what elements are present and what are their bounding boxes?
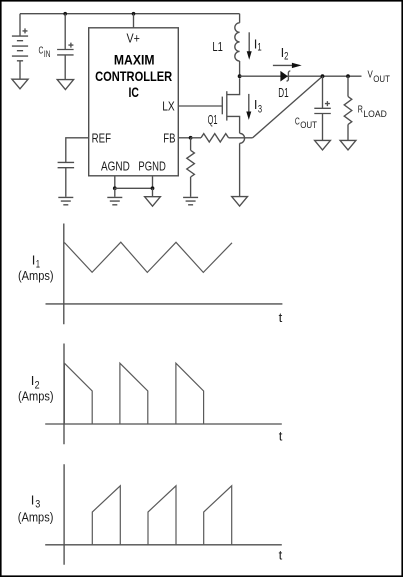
wire FB pin <box>178 137 190 139</box>
svg-text:1: 1 <box>257 42 261 54</box>
wire V+ pin <box>133 14 135 28</box>
svg-text:(Amps): (Amps) <box>18 268 54 283</box>
transistor Q1 (MOSFET) <box>178 78 239 133</box>
ground (RLOAD, triangle) <box>340 140 356 150</box>
wire switch node to VOUT <box>240 75 362 77</box>
svg-text:AGND: AGND <box>101 159 130 174</box>
node FB <box>189 136 193 140</box>
diode D1 (schottky) <box>280 71 288 82</box>
svg-text:MAXIM: MAXIM <box>114 52 155 68</box>
svg-text:C: C <box>39 44 44 56</box>
wire top rail <box>20 13 240 15</box>
svg-text:t: t <box>279 429 283 444</box>
node COUT <box>321 74 325 78</box>
svg-text:CONTROLLER: CONTROLLER <box>95 68 172 84</box>
wire PGND down <box>152 188 154 196</box>
wire PGND pin <box>152 176 154 189</box>
svg-text:FB: FB <box>163 130 175 145</box>
svg-text:V: V <box>368 69 373 81</box>
ground (Q1 source, triangle) <box>232 197 248 207</box>
svg-text:V+: V+ <box>127 30 140 45</box>
chart 1 axes <box>46 224 283 325</box>
capacitor COUT <box>314 76 331 140</box>
chart 3 waveform I3 <box>92 486 231 545</box>
svg-text:t: t <box>279 310 283 325</box>
svg-text:OUT: OUT <box>373 74 390 85</box>
svg-text:(Amps): (Amps) <box>18 509 54 524</box>
svg-text:OUT: OUT <box>300 120 317 131</box>
capacitor CIN <box>57 14 74 80</box>
svg-text:(Amps): (Amps) <box>18 389 54 404</box>
svg-text:LX: LX <box>162 99 175 114</box>
wire hop (source over FB line) <box>240 133 245 143</box>
chart 1 waveform I1 <box>64 242 232 272</box>
svg-text:R: R <box>358 103 363 115</box>
node (switch node) <box>238 74 242 78</box>
svg-text:LOAD: LOAD <box>363 109 387 120</box>
wire Q1 source down <box>239 143 241 196</box>
capacitor (REF bypass) <box>58 162 75 167</box>
resistor (FB lower divider) <box>187 138 195 197</box>
svg-text:PGND: PGND <box>138 159 165 174</box>
svg-text:2: 2 <box>284 51 288 63</box>
ground (battery) <box>12 79 28 89</box>
node AGND <box>113 186 117 190</box>
svg-text:IC: IC <box>129 84 139 100</box>
ground (CIN) <box>57 80 73 90</box>
battery B1 <box>12 14 28 79</box>
wire AGND pin <box>114 176 116 189</box>
node PGND <box>151 186 155 190</box>
wire REF pin <box>66 138 89 162</box>
ground (REF cap, earth) <box>58 197 73 204</box>
arrow I3 <box>248 94 250 112</box>
op-amp U1 MAXIM CONTROLLER IC box <box>89 28 179 176</box>
svg-text:t: t <box>279 547 283 562</box>
ground (AGND, earth) <box>107 197 122 204</box>
chart 2 waveform I2 <box>64 363 203 424</box>
resistor RLOAD <box>344 76 352 140</box>
chart 3 axes <box>45 464 282 565</box>
arrow I1 <box>248 32 250 52</box>
svg-text:D1: D1 <box>278 85 288 100</box>
node (CIN tap) <box>63 12 67 16</box>
wire AGND down <box>114 188 116 197</box>
svg-text:I: I <box>32 252 36 267</box>
svg-text:3: 3 <box>258 103 262 115</box>
svg-text:REF: REF <box>92 130 111 145</box>
svg-text:Q1: Q1 <box>208 112 218 127</box>
ground (PGND, triangle) <box>145 197 161 207</box>
svg-text:L1: L1 <box>212 39 223 54</box>
node (V+ tap) <box>132 12 136 16</box>
inductor L1 <box>235 14 240 76</box>
wire AGND-PGND link <box>115 187 153 189</box>
wire feedback diagonal <box>253 76 323 138</box>
ground (COUT, triangle) <box>315 140 331 150</box>
node RLOAD <box>346 74 350 78</box>
svg-text:I: I <box>31 492 35 507</box>
arrow I2 <box>273 64 292 66</box>
ground (FB divider, earth) <box>183 197 198 204</box>
resistor (FB upper divider, horizontal) <box>191 134 253 142</box>
chart 2 axes <box>45 344 282 445</box>
svg-text:IN: IN <box>44 49 51 60</box>
